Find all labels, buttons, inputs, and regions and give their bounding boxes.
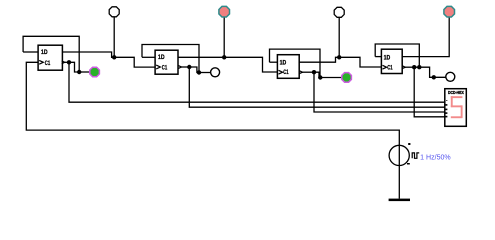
- display digit 5 segment g middle: [451, 105, 463, 107]
- node FF1 Q-bar junction: [67, 60, 71, 64]
- display pin 1: [445, 104, 447, 106]
- wire FF3 Q output to node C and FF4 C1: [299, 57, 381, 67]
- display pin 4: [445, 116, 447, 118]
- svg-text:1 Hz/50%: 1 Hz/50%: [420, 154, 451, 161]
- svg-text:1D: 1D: [280, 59, 287, 66]
- wire FF3 Q-bar output: [302, 71, 314, 73]
- wire FF1 1D input stub: [23, 51, 38, 53]
- node C junction FF3 Q / probe X3: [337, 55, 341, 59]
- wire probe X2 lead: [223, 16, 225, 57]
- wire FF1 Q-bar drop to display pin 1: [69, 62, 445, 102]
- display pin 2: [445, 109, 447, 111]
- clock minus tick: [407, 163, 410, 165]
- ground: [389, 199, 410, 202]
- clock plus tick: [408, 143, 410, 145]
- wire FF1 Q-bar elbow to LED junction: [69, 62, 79, 72]
- node FF2 Q-bar junction: [187, 65, 191, 69]
- display pin mark top: [446, 100, 447, 101]
- wire FF4 Q-bar drop to display pin 4: [414, 67, 445, 117]
- node FF3 Q-bar junction: [312, 70, 316, 74]
- display digit 5 segment d bottom: [451, 116, 463, 118]
- indicator X5 white circle, FF2 Q-bar: [211, 68, 220, 77]
- svg-text:C1: C1: [162, 65, 168, 72]
- wire to indicator X5: [199, 72, 211, 74]
- svg-text:DCD-HEX: DCD-HEX: [448, 90, 464, 95]
- flip-flop U3 box: [277, 55, 302, 79]
- probe X3 white, FF3 Q: [334, 7, 344, 17]
- indicator X6 white circle, FF4 Q-bar: [446, 72, 455, 81]
- LED1 green lit, FF1 Q-bar: [90, 67, 100, 77]
- wire FF2 1D input stub: [142, 56, 155, 58]
- svg-text:1D: 1D: [158, 54, 165, 61]
- wire FF3 Q-bar drop to display pin 3: [314, 72, 445, 112]
- wire FF4 Q output to probe X4: [402, 16, 449, 56]
- node FF2 indicator junction: [197, 70, 201, 74]
- node FF4 Q-bar junction 2 loop tap: [417, 65, 421, 69]
- LED2 green lit, FF3 Q-bar: [342, 73, 352, 83]
- wire FF3 Q-bar elbow to LED junction: [314, 72, 320, 77]
- svg-text:C1: C1: [387, 64, 393, 71]
- wire FF4 Q-bar elbow to indicator X6: [414, 67, 446, 77]
- display pin 3: [445, 112, 447, 114]
- node FF4 indicator junction: [432, 75, 436, 79]
- wire FF3 1D input stub: [270, 61, 278, 63]
- wire FF4 Q-bar output: [405, 66, 414, 68]
- flip-flop U1 box: [38, 45, 65, 70]
- node A junction FF1 Q / probe X1: [112, 55, 116, 59]
- wire FF3 feedback loop: [270, 49, 321, 77]
- node B junction FF2 Q / probe X2: [222, 55, 226, 59]
- node FF1 LED junction: [77, 70, 81, 74]
- wire FF1 Q output to node A and FF2 C1: [62, 52, 155, 67]
- wire to LED2: [320, 77, 341, 79]
- probe X1 white, FF1 Q: [109, 7, 119, 17]
- flip-flop U2 box: [155, 50, 181, 74]
- probe X2 red lit, FF2 Q: [219, 6, 230, 17]
- wire FF2 Q output to node B and FF3 C1: [178, 57, 277, 72]
- node FF3 LED junction: [318, 75, 322, 79]
- wire probe X3 lead: [338, 17, 340, 57]
- display digit 5 segment f upper left: [451, 96, 453, 107]
- probe X4 red lit, FF4 Q: [444, 6, 455, 17]
- clock source V1 circle: [389, 145, 409, 165]
- wire FF4 feedback loop: [375, 44, 419, 67]
- wire FF2 feedback loop: [142, 45, 199, 73]
- flip-flop U4 box: [381, 49, 405, 73]
- wire FF2 Q-bar elbow to indicator junction: [189, 67, 199, 73]
- svg-text:C1: C1: [45, 60, 51, 67]
- svg-text:1D: 1D: [384, 54, 391, 61]
- wire FF4 1D input stub: [375, 56, 381, 58]
- wire FF1 feedback loop Q-bar to 1D: [23, 36, 79, 72]
- wire probe X1 lead: [113, 16, 115, 57]
- wire FF2 Q-bar output: [181, 66, 190, 68]
- wire FF2 Q-bar drop to display pin 2: [189, 67, 444, 107]
- seven-segment display U5 box: [445, 89, 467, 127]
- wire clock to ground (through circle): [398, 145, 400, 199]
- display digit 5 segment c lower right: [461, 105, 463, 118]
- node FF4 Q-bar junction 1: [412, 65, 416, 69]
- wire FF1 C1 input, drop and clock bus to clock source: [26, 62, 399, 145]
- wire FF1 Q-bar output: [65, 61, 69, 63]
- display digit 5 segment a top: [451, 96, 463, 98]
- svg-text:1D: 1D: [41, 49, 48, 56]
- svg-text:C1: C1: [283, 69, 289, 76]
- clock square-wave glyph: [412, 153, 419, 158]
- wire to LED1: [79, 71, 90, 73]
